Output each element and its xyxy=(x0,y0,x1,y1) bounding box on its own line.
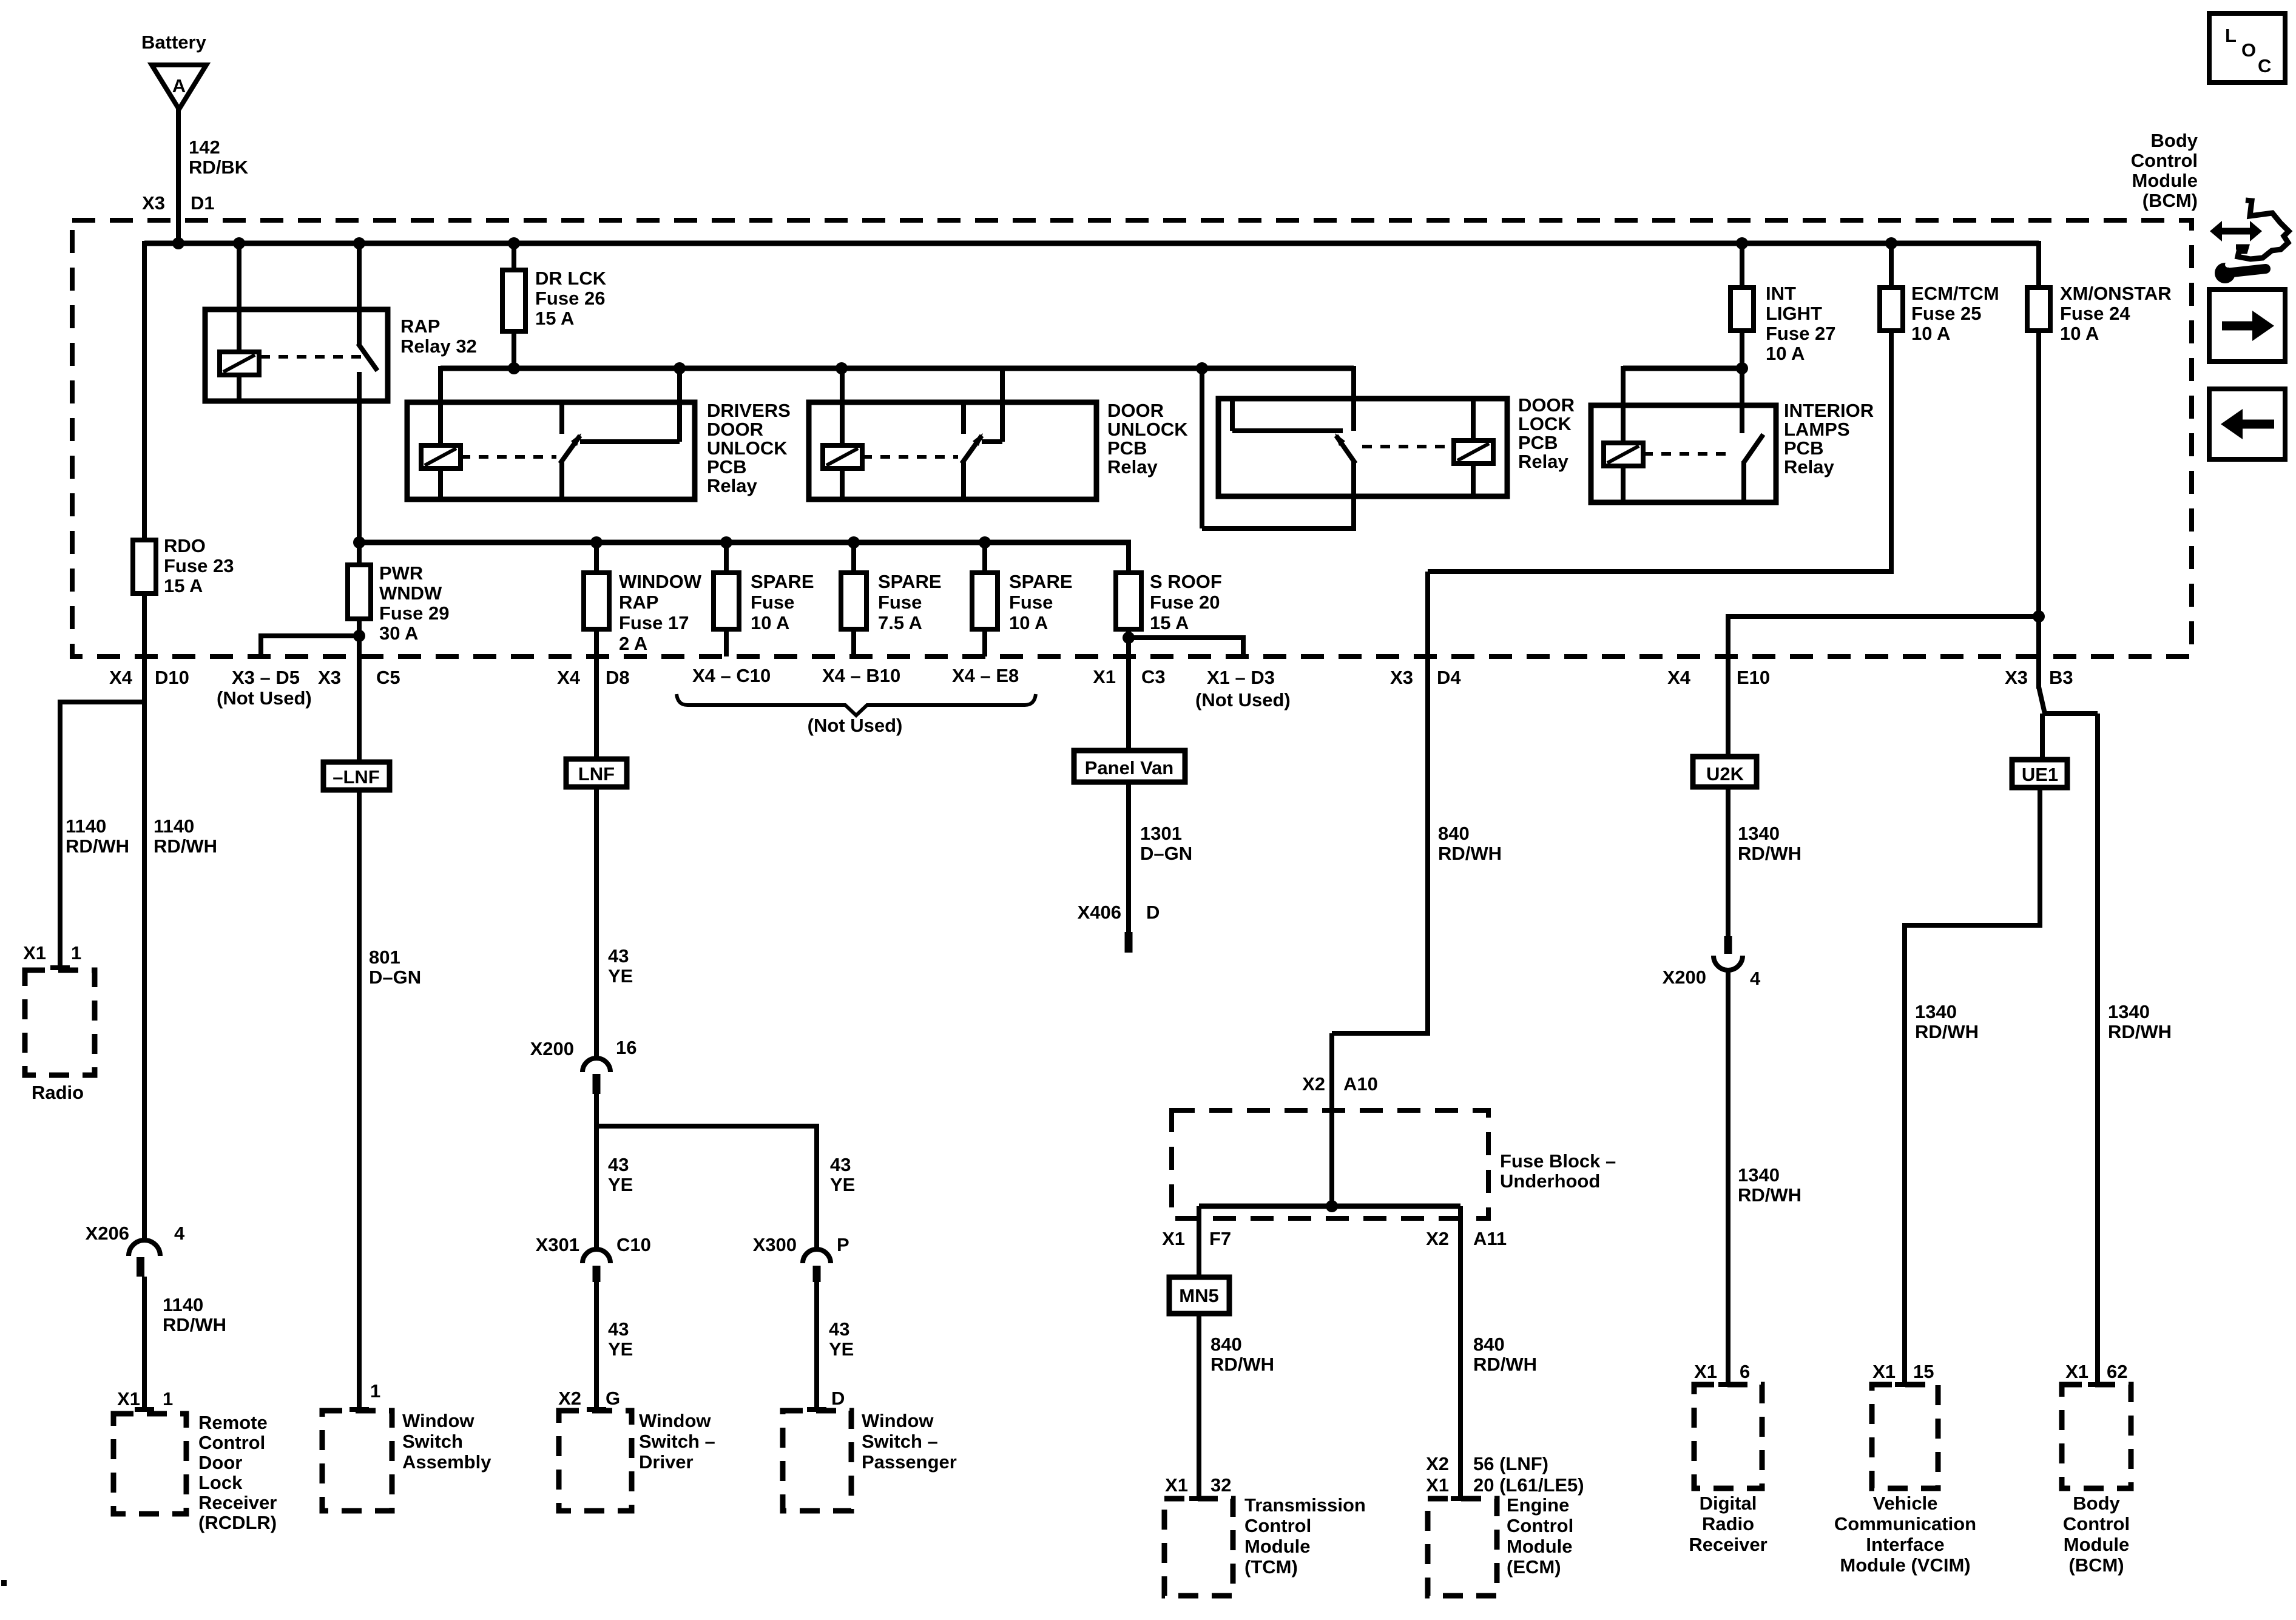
svg-text:X3 – D5: X3 – D5 xyxy=(232,667,300,688)
svg-text:1340: 1340 xyxy=(2108,1001,2150,1022)
svg-text:A11: A11 xyxy=(1473,1228,1507,1249)
svg-text:WINDOW: WINDOW xyxy=(619,571,702,592)
svg-text:Engine: Engine xyxy=(1507,1494,1569,1516)
svg-text:YE: YE xyxy=(608,1174,633,1195)
svg-text:Body: Body xyxy=(2073,1493,2120,1514)
svg-text:Switch –: Switch – xyxy=(862,1431,938,1452)
svg-text:(ECM): (ECM) xyxy=(1507,1556,1561,1578)
svg-text:X4 – E8: X4 – E8 xyxy=(952,665,1019,686)
svg-text:10 A: 10 A xyxy=(751,612,789,633)
svg-text:SPARE: SPARE xyxy=(1009,571,1073,592)
svg-text:C: C xyxy=(2258,55,2271,76)
svg-text:D: D xyxy=(1146,902,1160,923)
svg-text:Radio: Radio xyxy=(32,1082,84,1103)
svg-text:G: G xyxy=(606,1388,620,1409)
svg-text:S ROOF: S ROOF xyxy=(1150,571,1222,592)
svg-text:Fuse: Fuse xyxy=(878,592,922,613)
svg-text:Communication: Communication xyxy=(1834,1513,1976,1534)
svg-text:Fuse 24: Fuse 24 xyxy=(2060,303,2130,324)
svg-text:4: 4 xyxy=(1750,968,1761,989)
svg-text:Switch –: Switch – xyxy=(639,1431,715,1452)
svg-text:O: O xyxy=(2241,39,2256,61)
svg-text:X1: X1 xyxy=(1694,1361,1717,1382)
svg-text:B3: B3 xyxy=(2049,667,2073,688)
svg-text:PCB: PCB xyxy=(1107,437,1147,459)
svg-text:F7: F7 xyxy=(1209,1228,1231,1249)
svg-text:UE1: UE1 xyxy=(2022,764,2058,785)
svg-text:X4 – C10: X4 – C10 xyxy=(692,665,771,686)
svg-text:Relay: Relay xyxy=(1784,456,1834,478)
svg-text:X206: X206 xyxy=(86,1223,129,1244)
svg-text:UNLOCK: UNLOCK xyxy=(707,437,788,459)
svg-text:Control: Control xyxy=(2131,150,2198,171)
svg-text:15 A: 15 A xyxy=(1150,612,1189,633)
svg-text:Interface: Interface xyxy=(1866,1534,1944,1555)
svg-text:RD/WH: RD/WH xyxy=(1915,1021,1979,1042)
svg-text:X3: X3 xyxy=(142,192,165,214)
svg-text:Window: Window xyxy=(862,1410,934,1431)
svg-text:X1: X1 xyxy=(1872,1361,1896,1382)
svg-text:43: 43 xyxy=(830,1154,851,1175)
svg-text:X2: X2 xyxy=(558,1388,581,1409)
svg-text:Body: Body xyxy=(2151,130,2198,151)
svg-text:1140: 1140 xyxy=(66,815,106,837)
svg-text:XM/ONSTAR: XM/ONSTAR xyxy=(2060,283,2172,304)
svg-text:2 A: 2 A xyxy=(619,633,647,654)
svg-text:Fuse 17: Fuse 17 xyxy=(619,612,689,633)
svg-text:RD/WH: RD/WH xyxy=(1738,1184,1801,1206)
svg-text:SPARE: SPARE xyxy=(878,571,942,592)
svg-text:Module (VCIM): Module (VCIM) xyxy=(1840,1554,1970,1576)
svg-text:1140: 1140 xyxy=(154,815,194,837)
svg-text:PCB: PCB xyxy=(1518,432,1558,453)
svg-text:(Not Used): (Not Used) xyxy=(1195,689,1291,710)
svg-text:Fuse 25: Fuse 25 xyxy=(1911,303,1981,324)
svg-text:X200: X200 xyxy=(530,1038,574,1059)
svg-text:RD/WH: RD/WH xyxy=(154,835,217,857)
svg-text:Control: Control xyxy=(1507,1515,1573,1536)
svg-text:Panel Van: Panel Van xyxy=(1085,757,1173,778)
svg-text:RD/BK: RD/BK xyxy=(189,157,249,178)
svg-text:1340: 1340 xyxy=(1738,823,1780,844)
svg-text:X1 – D3: X1 – D3 xyxy=(1207,667,1275,688)
svg-text:YE: YE xyxy=(829,1338,854,1360)
svg-text:U2K: U2K xyxy=(1706,763,1744,785)
svg-text:RD/WH: RD/WH xyxy=(66,835,129,857)
svg-text:Fuse 23: Fuse 23 xyxy=(164,555,234,576)
svg-text:Battery: Battery xyxy=(141,32,207,53)
svg-text:Digital: Digital xyxy=(1700,1493,1757,1514)
svg-text:X1: X1 xyxy=(1162,1228,1185,1249)
svg-text:Module: Module xyxy=(1507,1536,1573,1557)
svg-text:UNLOCK: UNLOCK xyxy=(1107,419,1188,440)
svg-text:MN5: MN5 xyxy=(1179,1285,1218,1306)
svg-text:1: 1 xyxy=(163,1388,173,1409)
svg-text:WNDW: WNDW xyxy=(379,582,442,604)
svg-text:D10: D10 xyxy=(155,667,189,688)
svg-text:X3: X3 xyxy=(318,667,341,688)
svg-text:DOOR: DOOR xyxy=(1107,400,1164,421)
svg-text:X300: X300 xyxy=(753,1234,797,1255)
svg-text:10 A: 10 A xyxy=(2060,323,2099,344)
svg-text:10 A: 10 A xyxy=(1911,323,1950,344)
svg-text:Fuse 27: Fuse 27 xyxy=(1766,323,1835,344)
svg-text:X1: X1 xyxy=(1165,1474,1188,1496)
svg-text:(BCM): (BCM) xyxy=(2142,190,2198,211)
svg-text:Receiver: Receiver xyxy=(1689,1534,1767,1555)
svg-text:Relay: Relay xyxy=(1518,451,1568,472)
svg-text:RAP: RAP xyxy=(400,316,440,337)
svg-text:1: 1 xyxy=(370,1380,380,1402)
svg-text:16: 16 xyxy=(616,1037,636,1058)
svg-text:Module: Module xyxy=(1244,1536,1311,1557)
svg-text:(TCM): (TCM) xyxy=(1244,1556,1298,1578)
svg-text:1301: 1301 xyxy=(1140,823,1182,844)
svg-text:Assembly: Assembly xyxy=(402,1451,491,1473)
svg-text:PWR: PWR xyxy=(379,562,423,584)
svg-text:Module: Module xyxy=(2064,1534,2130,1555)
svg-text:INTERIOR: INTERIOR xyxy=(1784,400,1874,421)
svg-text:Control: Control xyxy=(1244,1515,1311,1536)
svg-text:YE: YE xyxy=(608,1338,633,1360)
svg-text:840: 840 xyxy=(1473,1334,1505,1355)
svg-text:D–GN: D–GN xyxy=(1140,843,1192,864)
svg-text:C5: C5 xyxy=(376,667,400,688)
svg-text:D8: D8 xyxy=(606,667,630,688)
svg-text:X1: X1 xyxy=(23,942,46,964)
svg-text:D1: D1 xyxy=(191,192,215,214)
svg-text:Receiver: Receiver xyxy=(198,1492,277,1513)
svg-text:X3: X3 xyxy=(1390,667,1413,688)
svg-text:RD/WH: RD/WH xyxy=(1738,843,1801,864)
svg-text:15 A: 15 A xyxy=(535,308,574,329)
svg-text:Relay: Relay xyxy=(707,475,757,496)
svg-text:X4: X4 xyxy=(1667,667,1691,688)
svg-text:Vehicle: Vehicle xyxy=(1873,1493,1938,1514)
svg-text:142: 142 xyxy=(189,137,220,158)
svg-text:X406: X406 xyxy=(1078,902,1121,923)
svg-text:Fuse 29: Fuse 29 xyxy=(379,602,449,624)
svg-text:Passenger: Passenger xyxy=(862,1451,957,1473)
svg-text:10 A: 10 A xyxy=(1766,343,1805,364)
svg-text:(Not Used): (Not Used) xyxy=(217,687,312,709)
svg-text:X1: X1 xyxy=(2065,1361,2088,1382)
svg-text:DRIVERS: DRIVERS xyxy=(707,400,791,421)
svg-text:X1: X1 xyxy=(1426,1474,1449,1496)
svg-text:1140: 1140 xyxy=(163,1294,203,1315)
svg-text:RD/WH: RD/WH xyxy=(1438,843,1502,864)
svg-text:840: 840 xyxy=(1438,823,1470,844)
svg-text:D–GN: D–GN xyxy=(369,967,421,988)
svg-text:801: 801 xyxy=(369,947,400,968)
svg-text:(BCM): (BCM) xyxy=(2068,1554,2124,1576)
svg-text:PCB: PCB xyxy=(707,456,746,478)
svg-text:LAMPS: LAMPS xyxy=(1784,419,1850,440)
svg-text:RD/WH: RD/WH xyxy=(1473,1354,1537,1375)
svg-text:C10: C10 xyxy=(616,1234,651,1255)
svg-text:Underhood: Underhood xyxy=(1500,1170,1600,1192)
svg-text:RD/WH: RD/WH xyxy=(2108,1021,2172,1042)
svg-text:X1: X1 xyxy=(1093,666,1116,687)
svg-text:Door: Door xyxy=(198,1452,242,1473)
svg-text:15: 15 xyxy=(1913,1361,1934,1382)
svg-text:Driver: Driver xyxy=(639,1451,694,1473)
svg-text:L: L xyxy=(2225,25,2237,46)
svg-text:840: 840 xyxy=(1210,1334,1242,1355)
svg-text:–LNF: –LNF xyxy=(333,766,380,788)
svg-text:Window: Window xyxy=(402,1410,474,1431)
svg-text:Fuse: Fuse xyxy=(1009,592,1053,613)
svg-text:X4: X4 xyxy=(557,667,581,688)
svg-text:ECM/TCM: ECM/TCM xyxy=(1911,283,1999,304)
svg-text:Fuse 26: Fuse 26 xyxy=(535,288,605,309)
svg-text:Control: Control xyxy=(198,1432,265,1453)
svg-text:Fuse: Fuse xyxy=(751,592,794,613)
svg-text:X200: X200 xyxy=(1663,967,1706,988)
svg-text:Transmission: Transmission xyxy=(1244,1494,1366,1516)
svg-text:RD/WH: RD/WH xyxy=(1210,1354,1274,1375)
svg-text:Window: Window xyxy=(639,1410,711,1431)
svg-text:56 (LNF): 56 (LNF) xyxy=(1473,1453,1548,1474)
svg-text:A10: A10 xyxy=(1343,1073,1378,1095)
svg-text:30 A: 30 A xyxy=(379,623,418,644)
svg-text:43: 43 xyxy=(608,1318,629,1340)
svg-text:20 (L61/LE5): 20 (L61/LE5) xyxy=(1473,1474,1584,1496)
svg-text:X301: X301 xyxy=(536,1234,579,1255)
svg-text:43: 43 xyxy=(829,1318,849,1340)
svg-text:X3: X3 xyxy=(2005,667,2028,688)
svg-text:Module: Module xyxy=(2132,170,2198,191)
svg-text:LNF: LNF xyxy=(578,763,615,785)
svg-text:LIGHT: LIGHT xyxy=(1766,303,1822,324)
svg-text:PCB: PCB xyxy=(1784,437,1823,459)
svg-text:1340: 1340 xyxy=(1738,1164,1780,1186)
svg-text:43: 43 xyxy=(608,945,629,967)
svg-text:1: 1 xyxy=(71,942,81,964)
svg-text:1340: 1340 xyxy=(1915,1001,1957,1022)
svg-text:Switch: Switch xyxy=(402,1431,463,1452)
svg-text:RAP: RAP xyxy=(619,592,658,613)
svg-text:X2: X2 xyxy=(1426,1228,1449,1249)
svg-text:X1: X1 xyxy=(117,1388,140,1409)
svg-text:D4: D4 xyxy=(1437,667,1461,688)
svg-text:DOOR: DOOR xyxy=(707,419,763,440)
svg-text:E10: E10 xyxy=(1737,667,1770,688)
svg-text:62: 62 xyxy=(2107,1361,2127,1382)
svg-text:Radio: Radio xyxy=(1702,1513,1754,1534)
svg-text:INT: INT xyxy=(1766,283,1796,304)
svg-text:D: D xyxy=(831,1388,845,1409)
svg-text:YE: YE xyxy=(830,1174,855,1195)
svg-text:Lock: Lock xyxy=(198,1472,243,1493)
svg-text:10 A: 10 A xyxy=(1009,612,1048,633)
svg-text:Remote: Remote xyxy=(198,1412,268,1433)
svg-text:YE: YE xyxy=(608,965,633,987)
svg-text:DR LCK: DR LCK xyxy=(535,268,607,289)
svg-text:Relay 32: Relay 32 xyxy=(400,336,477,357)
svg-text:SPARE: SPARE xyxy=(751,571,814,592)
svg-text:X2: X2 xyxy=(1426,1453,1449,1474)
svg-text:7.5 A: 7.5 A xyxy=(878,612,922,633)
svg-text:X4 – B10: X4 – B10 xyxy=(822,665,900,686)
svg-text:15 A: 15 A xyxy=(164,575,203,596)
svg-text:Control: Control xyxy=(2063,1513,2130,1534)
svg-text:LOCK: LOCK xyxy=(1518,413,1572,434)
svg-text:C3: C3 xyxy=(1141,666,1166,687)
svg-text:32: 32 xyxy=(1210,1474,1231,1496)
svg-text:X4: X4 xyxy=(109,667,133,688)
svg-text:X2: X2 xyxy=(1302,1073,1325,1095)
svg-text:DOOR: DOOR xyxy=(1518,394,1575,416)
svg-text:(RCDLR): (RCDLR) xyxy=(198,1512,277,1533)
svg-text:P: P xyxy=(837,1234,849,1255)
svg-text:43: 43 xyxy=(608,1154,629,1175)
svg-text:Fuse Block –: Fuse Block – xyxy=(1500,1150,1616,1172)
svg-text:RDO: RDO xyxy=(164,535,206,556)
svg-text:RD/WH: RD/WH xyxy=(163,1314,226,1335)
svg-text:4: 4 xyxy=(174,1223,185,1244)
svg-text:A: A xyxy=(172,75,186,96)
svg-text:Fuse 20: Fuse 20 xyxy=(1150,592,1220,613)
svg-text:6: 6 xyxy=(1740,1361,1750,1382)
svg-text:Relay: Relay xyxy=(1107,456,1158,478)
svg-text:(Not Used): (Not Used) xyxy=(808,715,903,736)
